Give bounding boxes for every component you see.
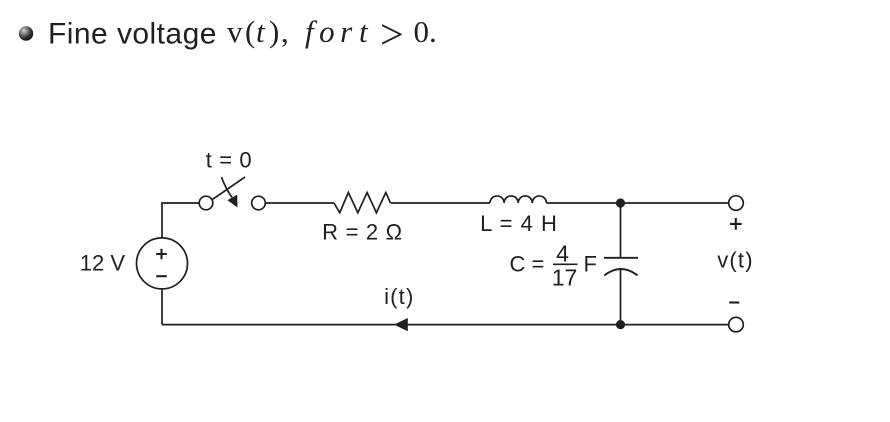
wire: switch to resistor	[265, 202, 334, 204]
svg-text:i(t): i(t)	[384, 284, 414, 309]
svg-text:17: 17	[552, 265, 578, 291]
wire: resistor to inductor	[391, 202, 491, 204]
minus sign inside source	[156, 275, 167, 277]
junction node top	[616, 198, 625, 207]
svg-text:R = 2 Ω: R = 2 Ω	[322, 220, 403, 245]
plus sign output	[730, 218, 742, 230]
inductor L	[490, 196, 546, 203]
svg-text:L = 4 H: L = 4 H	[480, 211, 558, 236]
output terminal bottom	[729, 317, 744, 332]
svg-text:Fine voltage: Fine voltage	[48, 18, 217, 51]
switch left contact	[199, 196, 213, 210]
current arrow i(t)	[394, 318, 408, 331]
svg-text:t = 0: t = 0	[206, 148, 252, 173]
svg-text:4: 4	[556, 241, 569, 267]
output terminal top	[729, 196, 744, 211]
resistor R	[334, 193, 391, 213]
svg-text:v(t): v(t)	[717, 248, 754, 273]
title bullet	[19, 26, 33, 40]
plus sign inside source	[156, 249, 167, 260]
wire: top-left corner from source to switch	[162, 203, 199, 325]
voltage source V1	[137, 238, 188, 289]
svg-text:F: F	[584, 252, 597, 277]
capacitor C	[620, 203, 622, 258]
junction node bottom	[616, 320, 625, 329]
switch right contact	[252, 196, 266, 210]
bottom wire	[162, 324, 729, 326]
minus sign output	[729, 301, 739, 303]
wire: inductor to top-right terminal	[546, 202, 728, 204]
switch blade (open)	[212, 177, 245, 200]
svg-text:12 V: 12 V	[80, 251, 126, 276]
svg-text:C =: C =	[510, 252, 545, 277]
switch closing arrow	[222, 177, 233, 197]
svg-text:v(t),fort>0.: v(t),fort>0.	[227, 12, 437, 58]
